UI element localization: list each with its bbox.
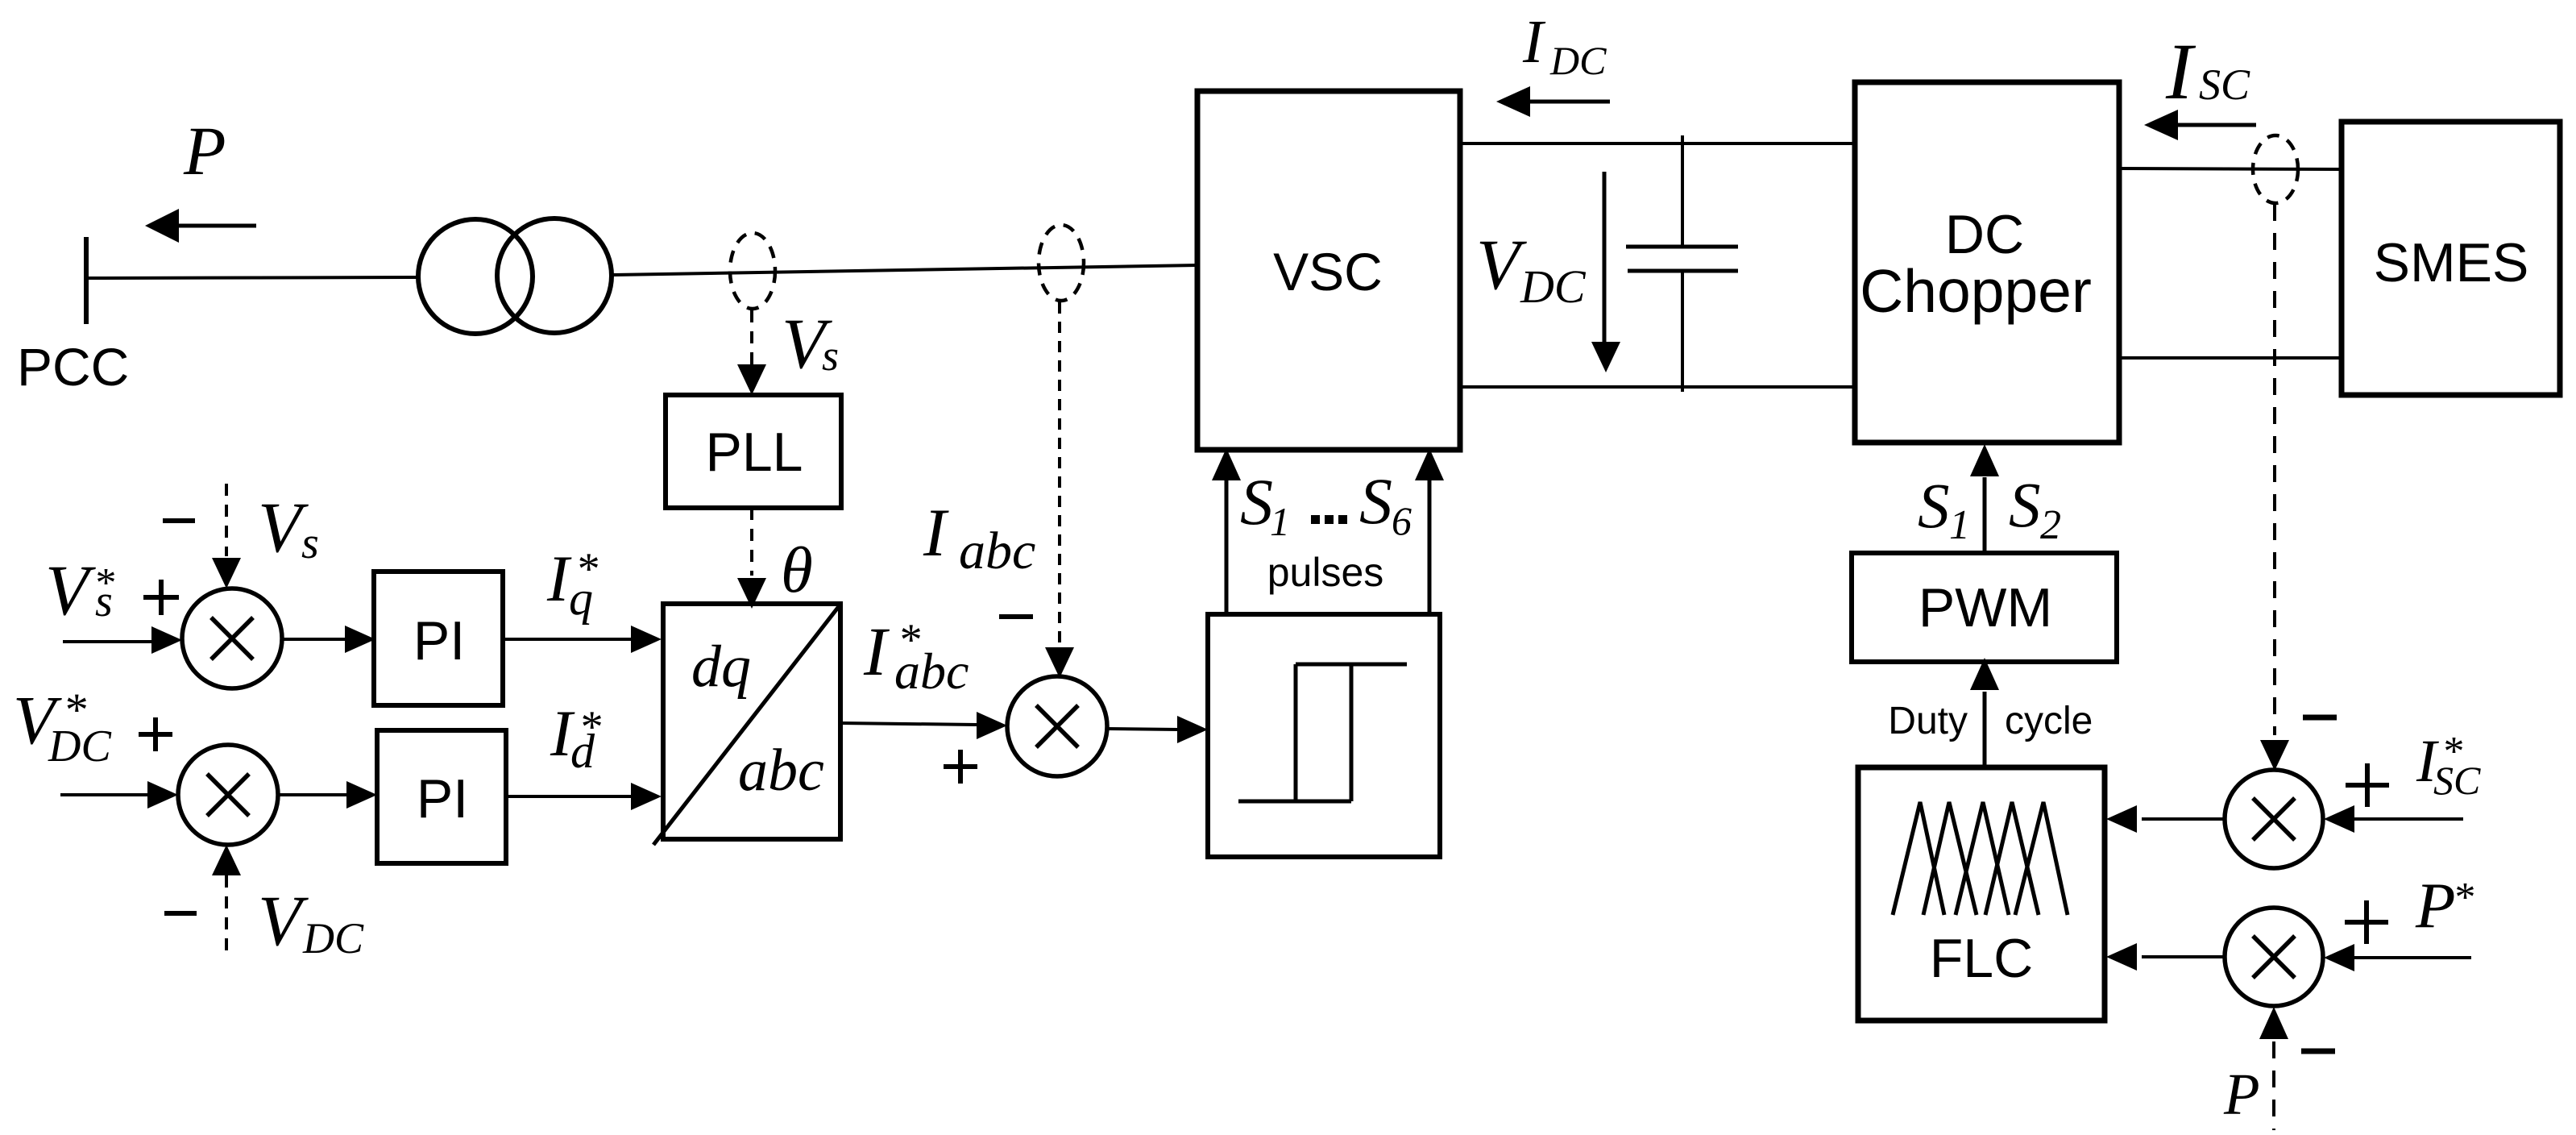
label P* reference [2415, 869, 2474, 942]
svg-text:Duty: Duty [1888, 700, 1968, 742]
label S2 chopper [2009, 471, 2061, 548]
label S1 ... S6 [1240, 464, 1412, 544]
svg-text:PI: PI [417, 768, 468, 829]
plus sign at sum2 [139, 717, 172, 751]
block dq/abc transform [653, 604, 840, 845]
label ISC* reference [2416, 728, 2481, 803]
svg-text:SMES: SMES [2374, 232, 2529, 293]
summing junction sum3 [1007, 676, 1107, 776]
label S1 chopper [1918, 472, 1970, 548]
svg-text:2: 2 [2040, 502, 2061, 548]
svg-text:*: * [2453, 875, 2474, 921]
minus sign at sum3 [999, 614, 1033, 619]
wire sum2 to PI2 [278, 781, 377, 809]
svg-text:S: S [2009, 471, 2041, 541]
svg-text:I: I [863, 613, 890, 690]
dc link bottom wire [1460, 385, 1855, 389]
svg-text:V: V [45, 551, 96, 630]
plus sign at sum5 [2345, 900, 2388, 944]
svg-text:S: S [1918, 472, 1950, 542]
dashed wire PLL theta to dq/abc [737, 508, 766, 609]
svg-text:FLC: FLC [1930, 928, 2033, 989]
svg-text:DC: DC [1549, 38, 1607, 83]
label VDC* reference [13, 681, 111, 771]
label ISC [2165, 27, 2250, 116]
svg-text:DC: DC [1945, 204, 2024, 265]
svg-text:I: I [2165, 27, 2196, 116]
summing junction sum4 [2225, 770, 2323, 868]
svg-text:6: 6 [1392, 498, 1412, 543]
svg-text:I: I [923, 495, 949, 571]
svg-text:S: S [1359, 464, 1392, 538]
pulses bus line left [1212, 448, 1241, 614]
svg-text:s: s [822, 331, 839, 380]
summing junction sum2 [178, 745, 278, 845]
svg-text:abc: abc [738, 738, 824, 804]
arrow ISC left [2144, 110, 2256, 140]
svg-text:VSC: VSC [1273, 242, 1383, 301]
label Duty cycle [1888, 700, 2093, 742]
block PLL [666, 395, 841, 508]
arrow VDC down [1591, 172, 1620, 372]
wire chopper to SMES top [2119, 168, 2342, 169]
svg-text:d: d [570, 725, 595, 778]
hysteresis symbol [1238, 664, 1407, 801]
svg-text:PWM: PWM [1919, 577, 2052, 638]
block PI1 [374, 572, 503, 705]
plus sign at sum1 [143, 580, 179, 615]
wire ISC* into sum4 [2324, 805, 2463, 833]
svg-text:θ: θ [781, 534, 813, 606]
svg-text:V: V [258, 882, 309, 961]
block DC Chopper [1855, 82, 2119, 443]
svg-text:pulses: pulses [1267, 550, 1384, 595]
svg-text:DC: DC [1520, 260, 1587, 313]
block PWM [1852, 553, 2117, 662]
svg-text:abc: abc [959, 522, 1035, 580]
wire PWM to chopper S1 S2 [1970, 444, 1999, 553]
arrow FLC to PWM duty cycle [1970, 658, 1999, 767]
minus sign at sum2 [164, 911, 197, 916]
svg-text:s: s [301, 518, 319, 568]
summing junction sum5 [2225, 908, 2323, 1006]
dashed wire VDC to sum2 [212, 845, 241, 951]
svg-text:Chopper: Chopper [1860, 257, 2092, 325]
arrow P left [145, 209, 256, 243]
minus sign at sum4 [2303, 715, 2337, 721]
svg-text:SC: SC [2199, 60, 2250, 109]
label Vs* reference [45, 551, 114, 630]
wire PI1 to dq/abc [503, 626, 662, 653]
svg-text:q: q [569, 572, 593, 625]
svg-text:DC: DC [302, 914, 364, 962]
arrow IDC left [1496, 86, 1610, 117]
wire Vs* into sum1 [63, 626, 182, 654]
measurement point ISC (dashed ellipse) [2253, 135, 2298, 203]
label I*abc [863, 613, 969, 700]
wire dq/abc to sum3 [840, 712, 1007, 739]
dashed wire Vs to PLL [737, 310, 766, 395]
wire sum3 to hysteresis [1107, 716, 1208, 743]
label theta [781, 534, 813, 606]
block SMES [2342, 122, 2560, 395]
label Iabc [923, 495, 1035, 580]
pulses bus line right [1415, 448, 1444, 614]
summing junction sum1 [182, 588, 282, 688]
dashed wire Vs to sum1 [212, 484, 241, 588]
dashed wire ISC to sum4 [2260, 204, 2289, 771]
label Vs [782, 305, 839, 384]
block PI2 [377, 730, 506, 863]
svg-text:P: P [183, 112, 226, 189]
svg-text:SC: SC [2433, 758, 2481, 803]
label P (power flow) [183, 112, 226, 189]
label VDC link voltage [1476, 226, 1587, 313]
label Id* [550, 696, 601, 778]
label VDC feedback [258, 882, 364, 962]
block VSC [1197, 91, 1460, 450]
wire VDC* into sum2 [60, 781, 178, 809]
block FLC [1858, 767, 2105, 1021]
label PCC [17, 337, 129, 397]
svg-text:S: S [1240, 465, 1273, 538]
dc link top wire [1460, 142, 1855, 145]
svg-text:abc: abc [894, 642, 969, 700]
measurement point Iabc (dashed ellipse) [1039, 225, 1084, 301]
wire sum1 to PI1 [282, 626, 375, 653]
label pulses [1267, 550, 1384, 595]
wire chopper to SMES bottom [2119, 356, 2342, 360]
dashed wire Iabc to sum3 [1045, 302, 1074, 678]
wire sum5 to FLC [2106, 943, 2225, 971]
wire P* into sum5 [2324, 944, 2471, 971]
svg-text:dq: dq [691, 634, 751, 700]
plus sign at sum4 [2346, 763, 2389, 807]
wire PI2 to dq/abc [506, 783, 662, 810]
svg-text:PLL: PLL [706, 422, 803, 483]
label Vs at sum1 [258, 489, 319, 568]
minus sign at sum5 [2301, 1049, 2335, 1054]
measurement point Vs (dashed ellipse) [730, 233, 775, 309]
transformer T1 [418, 218, 612, 334]
dashed wire P to sum5 [2259, 1007, 2288, 1130]
svg-text:V: V [1476, 226, 1527, 305]
svg-text:s: s [95, 576, 113, 626]
block hysteresis controller [1208, 614, 1440, 857]
wire sum4 to FLC [2106, 805, 2225, 833]
svg-text:cycle: cycle [2005, 700, 2093, 742]
svg-text:PI: PI [413, 610, 465, 671]
wire transformer to VSC [612, 265, 1197, 275]
capacitor C [1626, 135, 1738, 392]
minus sign at sum1 [163, 518, 195, 523]
label P feedback [2223, 1062, 2260, 1127]
svg-text:DC: DC [48, 721, 111, 771]
bus PCC [84, 237, 89, 324]
label IDC [1522, 8, 1607, 83]
svg-text:I: I [1522, 8, 1546, 76]
plus sign at sum3 [944, 750, 977, 784]
svg-text:P: P [2223, 1062, 2260, 1127]
svg-text:1: 1 [1270, 499, 1290, 544]
svg-text:1: 1 [1949, 502, 1970, 548]
fuzzy membership functions [1893, 802, 2068, 915]
svg-text:P: P [2415, 869, 2455, 942]
wire PCC to transformer [89, 277, 418, 278]
svg-text:PCC: PCC [17, 337, 129, 397]
label Iq* [546, 542, 598, 625]
